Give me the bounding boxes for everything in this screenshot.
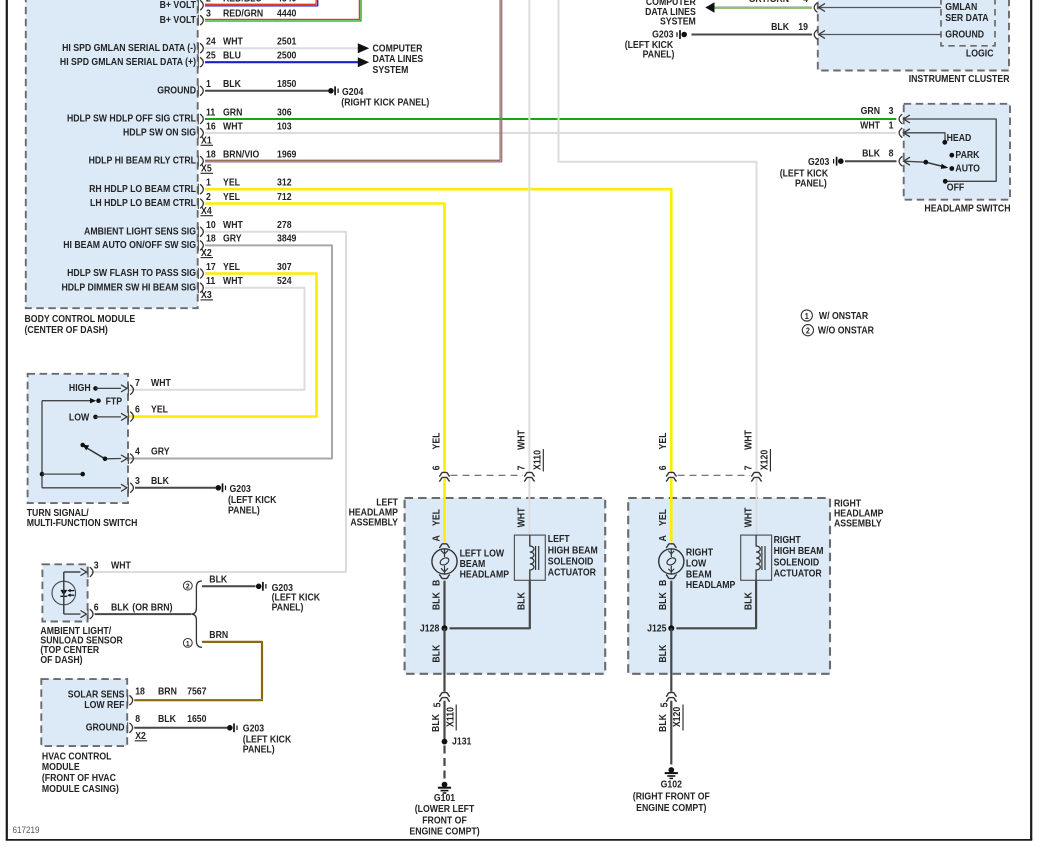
HVAC pin 18 SOLAR SENS LOW REF <box>68 686 207 710</box>
svg-text:2500: 2500 <box>277 50 296 61</box>
wire BRN 7567 <box>134 699 263 701</box>
wire BLU 2500 (HI SPD GMLAN +) <box>205 57 369 67</box>
wire BLK 1850 (ground) <box>205 90 328 92</box>
svg-text:3: 3 <box>206 8 211 19</box>
svg-text:B: B <box>658 579 669 586</box>
svg-text:LOW: LOW <box>686 558 707 569</box>
svg-text:RIGHT: RIGHT <box>686 547 713 558</box>
svg-text:LOW: LOW <box>69 412 90 423</box>
connector X120 pin 5 <box>657 693 683 732</box>
wire GRY/GRN (gmlan ser data to computer data lines) <box>705 0 812 13</box>
svg-text:WHT: WHT <box>516 507 527 527</box>
instrument cluster (box) <box>818 0 1009 71</box>
svg-text:X120: X120 <box>672 707 683 727</box>
BCM pin 17 YEL 307 (HDLP SW FLASH TO PASS SIG) <box>67 261 291 279</box>
svg-text:BLK: BLK <box>516 592 527 610</box>
ground splice G204 <box>328 86 429 107</box>
svg-text:X2: X2 <box>201 247 212 258</box>
wire WHT 524 (hdlp dimmer sw hi beam sig) <box>129 288 305 390</box>
left bulb B terminal wire <box>431 579 445 627</box>
svg-text:7: 7 <box>516 466 527 471</box>
BCM connector label X2 <box>201 247 214 258</box>
svg-text:PANEL): PANEL) <box>228 505 260 516</box>
svg-text:G203: G203 <box>243 723 264 734</box>
wire RED/GRN 4440 (B+ VOLT pin 3) <box>205 0 361 21</box>
BCM connector label X5 <box>201 163 214 174</box>
svg-text:712: 712 <box>277 191 292 202</box>
svg-text:5: 5 <box>659 703 670 708</box>
svg-text:(LEFT KICK: (LEFT KICK <box>243 734 292 745</box>
svg-text:WHT: WHT <box>223 276 243 287</box>
wire YEL 312 (RH hdlp lo beam) <box>205 189 671 471</box>
svg-text:(CENTER OF DASH): (CENTER OF DASH) <box>25 324 108 335</box>
wire YEL into right low beam <box>658 478 672 542</box>
svg-text:X4: X4 <box>201 205 212 216</box>
wire WHT 103 (hdlp sw on sig) <box>205 132 896 134</box>
svg-text:6: 6 <box>135 404 140 415</box>
svg-text:BRN/VIO: BRN/VIO <box>223 149 259 160</box>
turn signal switch pin 3 BLK <box>128 475 169 493</box>
svg-text:3: 3 <box>94 560 99 571</box>
instrument cluster LOGIC inner box <box>941 0 995 59</box>
svg-text:(RIGHT FRONT OF: (RIGHT FRONT OF <box>633 791 710 802</box>
svg-text:18: 18 <box>206 233 216 244</box>
headlamp switch caption <box>924 203 1010 214</box>
cluster internal line: GMLAN SER DATA <box>819 2 989 23</box>
svg-text:MULTI-FUNCTION SWITCH: MULTI-FUNCTION SWITCH <box>27 517 138 528</box>
diagram number 617219 <box>13 824 40 835</box>
svg-text:1: 1 <box>805 311 810 320</box>
svg-text:PANEL): PANEL) <box>272 602 304 613</box>
svg-text:307: 307 <box>277 261 292 272</box>
dashed BLK wire to G101 <box>443 746 445 780</box>
connector joint dashes <box>451 474 524 476</box>
svg-text:1969: 1969 <box>277 149 296 160</box>
ground G101 <box>409 782 479 837</box>
right solenoid ground wire <box>676 580 756 628</box>
BCM pin 3 RED/GRN 4440 (B+ VOLT) <box>160 8 297 26</box>
svg-text:17: 17 <box>206 261 216 272</box>
BCM pin 1 YEL 312 (RH HDLP LO BEAM CTRL) <box>89 177 291 195</box>
svg-text:11: 11 <box>206 107 215 118</box>
svg-text:G203: G203 <box>652 29 673 40</box>
svg-text:HEADLAMP: HEADLAMP <box>460 569 509 580</box>
BCM pin 1 BLK 1850 (GROUND) <box>157 79 296 97</box>
svg-text:3849: 3849 <box>277 233 296 244</box>
wire YEL 307 (hdlp sw flash to pass sig) <box>129 274 317 417</box>
wire WHT 2501 (HI SPD GMLAN -) <box>205 43 369 53</box>
HVAC control module (box) <box>41 679 127 746</box>
BCM connector label X1 <box>201 135 214 146</box>
svg-text:X5: X5 <box>201 163 212 174</box>
sensor pin 3 WHT <box>88 560 131 578</box>
svg-text:(OR BRN): (OR BRN) <box>132 602 172 613</box>
svg-text:BLK: BLK <box>658 644 669 662</box>
svg-text:HDLP DIMMER SW HI BEAM SIG: HDLP DIMMER SW HI BEAM SIG <box>61 282 196 293</box>
inline connector X110 pin 6 (YEL) <box>431 432 450 481</box>
wire WHT into left solenoid <box>516 478 530 535</box>
svg-text:4540: 4540 <box>277 0 296 4</box>
svg-text:306: 306 <box>277 107 292 118</box>
junction J125 <box>647 623 674 634</box>
svg-text:PANEL): PANEL) <box>643 49 675 60</box>
svg-text:ENGINE COMPT): ENGINE COMPT) <box>636 802 706 813</box>
svg-text:RH HDLP LO BEAM CTRL: RH HDLP LO BEAM CTRL <box>89 183 196 194</box>
svg-text:J131: J131 <box>452 736 471 747</box>
svg-text:WHT: WHT <box>743 507 754 527</box>
photodiode sensor symbol <box>52 572 76 614</box>
svg-text:BEAM: BEAM <box>686 569 712 580</box>
svg-text:278: 278 <box>277 220 292 231</box>
svg-text:DATA LINES: DATA LINES <box>373 54 424 65</box>
svg-text:HI BEAM AUTO ON/OFF SW SIG: HI BEAM AUTO ON/OFF SW SIG <box>63 240 196 251</box>
svg-text:FRONT OF: FRONT OF <box>422 815 467 826</box>
svg-text:1: 1 <box>186 639 190 647</box>
svg-text:AMBIENT LIGHT SENS SIG: AMBIENT LIGHT SENS SIG <box>84 226 196 237</box>
BCM connector label X3 <box>201 290 214 301</box>
switch pin 8 BLK <box>862 148 910 166</box>
BCM pin 24 WHT 2501 (HI SPD GMLAN SERIAL DATA (-)) <box>62 36 296 54</box>
switch pin 3 GRN <box>861 106 910 124</box>
svg-text:24: 24 <box>206 36 217 47</box>
computer data lines system label (left arrow) <box>645 0 696 26</box>
svg-text:HEAD: HEAD <box>947 132 972 143</box>
legend note 1: W/ ONSTAR <box>801 310 868 321</box>
inline connector X120 pin 7 (WHT) <box>743 430 770 482</box>
svg-text:PANEL): PANEL) <box>243 744 275 755</box>
body control module caption <box>25 314 136 335</box>
svg-text:WHT: WHT <box>223 121 243 132</box>
right headlamp assembly (box) <box>628 498 830 674</box>
svg-text:1: 1 <box>206 177 211 188</box>
svg-text:W/O ONSTAR: W/O ONSTAR <box>818 325 874 336</box>
HVAC connector label X2 <box>135 731 148 742</box>
svg-text:OFF: OFF <box>947 182 965 193</box>
svg-text:BEAM: BEAM <box>460 558 486 569</box>
svg-text:WHT: WHT <box>223 36 243 47</box>
svg-text:YEL: YEL <box>223 177 240 188</box>
svg-text:YEL: YEL <box>431 509 442 526</box>
svg-text:A: A <box>658 535 669 542</box>
wire BRN/VIO 1969 (hdlp hi beam rly ctrl) <box>205 0 502 162</box>
svg-text:GRY: GRY <box>223 233 242 244</box>
inline connector X120 pin 6 (YEL) <box>658 432 677 481</box>
svg-text:LOW REF: LOW REF <box>84 700 125 711</box>
wire BLK option 2 branch <box>202 574 256 586</box>
wire YEL 712 (LH hdlp lo beam) <box>205 204 445 472</box>
svg-text:8: 8 <box>889 148 894 159</box>
svg-text:25: 25 <box>206 50 216 61</box>
svg-text:BLK: BLK <box>658 592 669 610</box>
svg-text:TURN SIGNAL/: TURN SIGNAL/ <box>27 507 89 518</box>
svg-text:(LOWER LEFT: (LOWER LEFT <box>415 804 475 815</box>
svg-text:GRN: GRN <box>861 106 881 117</box>
option circle 1 <box>183 639 192 648</box>
svg-text:4440: 4440 <box>277 8 296 19</box>
BCM connector label X4 <box>201 205 214 216</box>
svg-text:G204: G204 <box>342 86 364 97</box>
connector X110 pin 5 <box>431 693 457 732</box>
svg-text:ASSEMBLY: ASSEMBLY <box>350 517 398 528</box>
svg-text:RED/GRN: RED/GRN <box>223 8 264 19</box>
switch internal circuit <box>904 119 997 184</box>
svg-text:7567: 7567 <box>187 686 206 697</box>
svg-text:BLK: BLK <box>431 714 442 732</box>
svg-text:BLK: BLK <box>151 475 169 486</box>
svg-text:SYSTEM: SYSTEM <box>373 64 409 75</box>
svg-text:2: 2 <box>206 0 211 4</box>
wire BLK (turn signal ground) <box>135 487 216 489</box>
svg-text:BRN: BRN <box>209 630 228 641</box>
left low beam headlamp bulb <box>432 544 457 579</box>
svg-text:YEL: YEL <box>223 261 240 272</box>
svg-text:BLK: BLK <box>209 574 227 585</box>
svg-text:16: 16 <box>206 121 216 132</box>
svg-text:BLK: BLK <box>223 79 241 90</box>
svg-text:BLK: BLK <box>657 714 668 732</box>
svg-text:3: 3 <box>889 106 894 117</box>
svg-text:SOLENOID: SOLENOID <box>548 556 594 567</box>
wire YEL into left low beam <box>431 478 445 542</box>
svg-text:B: B <box>431 579 442 586</box>
BCM pin 18 BRN/VIO 1969 (HDLP HI BEAM RLY CTRL) <box>89 149 297 167</box>
svg-text:X110: X110 <box>445 707 456 727</box>
right high beam solenoid actuator <box>741 535 772 580</box>
turn signal switch internal circuit <box>40 383 127 492</box>
svg-text:X1: X1 <box>201 135 212 146</box>
svg-text:6: 6 <box>431 466 442 471</box>
BCM pin 10 WHT 278 (AMBIENT LIGHT SENS SIG) <box>84 220 292 238</box>
svg-text:(RIGHT KICK PANEL): (RIGHT KICK PANEL) <box>341 97 429 108</box>
turn signal / multi-function switch (box) <box>28 374 128 503</box>
wire BLK below J128 <box>431 628 445 691</box>
svg-text:HIGH BEAM: HIGH BEAM <box>774 546 824 557</box>
svg-text:HIGH BEAM: HIGH BEAM <box>548 545 598 556</box>
svg-text:18: 18 <box>206 149 216 160</box>
inline connector X110 pin 7 (WHT) <box>516 430 543 482</box>
wire BLK to G102 <box>670 701 672 765</box>
svg-text:LH HDLP LO BEAM CTRL: LH HDLP LO BEAM CTRL <box>90 198 196 209</box>
ambient light / sunload sensor (box) <box>42 564 87 621</box>
svg-text:BLK: BLK <box>111 602 129 613</box>
left solenoid ground wire <box>450 580 530 628</box>
svg-text:A: A <box>431 535 442 542</box>
svg-text:X110: X110 <box>532 450 543 470</box>
svg-text:7: 7 <box>743 466 754 471</box>
ground splice G203 (left kick panel, cluster) <box>625 29 687 60</box>
svg-text:HDLP SW FLASH TO PASS SIG: HDLP SW FLASH TO PASS SIG <box>67 268 196 279</box>
svg-text:(FRONT OF HVAC: (FRONT OF HVAC <box>42 773 116 784</box>
BCM pin 11 GRN 306 (HDLP SW HDLP OFF SIG CTRL) <box>67 107 292 125</box>
svg-text:1: 1 <box>889 120 894 131</box>
wire BLK 8 (switch ground) <box>845 160 897 162</box>
svg-text:SER DATA: SER DATA <box>945 12 989 23</box>
ambient light sensor caption <box>40 625 123 665</box>
svg-text:HDLP HI BEAM RLY CTRL: HDLP HI BEAM RLY CTRL <box>89 155 197 166</box>
right solenoid caption <box>774 534 824 578</box>
svg-text:HI SPD GMLAN SERIAL DATA (+): HI SPD GMLAN SERIAL DATA (+) <box>60 56 196 67</box>
svg-text:GMLAN: GMLAN <box>945 2 977 13</box>
left solenoid caption <box>548 534 598 578</box>
svg-text:LOGIC: LOGIC <box>966 48 994 59</box>
svg-text:GRY/GRN: GRY/GRN <box>749 0 790 4</box>
svg-text:ENGINE COMPT): ENGINE COMPT) <box>409 826 479 837</box>
svg-text:5: 5 <box>432 703 443 708</box>
BCM pin 25 BLU 2500 (HI SPD GMLAN SERIAL DATA (+)) <box>60 50 296 68</box>
sensor internal wiring <box>64 568 87 617</box>
wire GRY 3849 (hi beam auto on/off sw sig) <box>129 245 332 458</box>
right low beam caption <box>686 547 735 590</box>
cluster pin 19 (ground) <box>814 30 825 40</box>
svg-text:BODY CONTROL MODULE: BODY CONTROL MODULE <box>25 314 136 325</box>
svg-text:MODULE CASING): MODULE CASING) <box>42 783 119 794</box>
wire WHT (right high beam feed from top) <box>559 0 757 472</box>
svg-text:BLK: BLK <box>862 148 880 159</box>
svg-text:HI SPD GMLAN SERIAL DATA (-): HI SPD GMLAN SERIAL DATA (-) <box>62 42 196 53</box>
BCM pin 16 WHT 103 (HDLP SW ON SIG) <box>123 121 292 139</box>
turn signal switch pin 4 GRY <box>128 446 169 464</box>
svg-text:YEL: YEL <box>658 509 669 526</box>
svg-text:HEADLAMP: HEADLAMP <box>686 580 735 591</box>
svg-text:HEADLAMP SWITCH: HEADLAMP SWITCH <box>924 203 1010 214</box>
svg-text:X2: X2 <box>135 731 146 742</box>
svg-text:COMPUTER: COMPUTER <box>373 43 423 54</box>
right headlamp assembly caption <box>834 498 883 528</box>
computer data lines system label (right arrow) <box>373 43 424 75</box>
headlamp switch S1 (box) <box>904 104 1010 200</box>
ground G102 <box>633 767 710 813</box>
wire BLK (OR BRN) from sensor <box>95 613 191 615</box>
junction J131 <box>442 736 472 747</box>
svg-text:1650: 1650 <box>187 714 206 725</box>
svg-text:G203: G203 <box>808 156 829 167</box>
wire WHT (left high beam feed from top) <box>528 0 530 472</box>
svg-text:GROUND: GROUND <box>86 722 125 733</box>
svg-text:YEL: YEL <box>658 432 669 449</box>
svg-text:19: 19 <box>798 21 808 32</box>
svg-text:HIGH: HIGH <box>69 383 91 394</box>
HVAC pin 8 GROUND <box>86 714 207 734</box>
svg-text:8: 8 <box>135 714 140 725</box>
svg-text:18: 18 <box>135 686 145 697</box>
svg-text:GRN: GRN <box>223 107 243 118</box>
switch pin 1 WHT <box>860 120 910 138</box>
svg-text:LEFT: LEFT <box>548 534 570 545</box>
svg-text:(LEFT KICK: (LEFT KICK <box>228 495 277 506</box>
svg-text:BLK: BLK <box>743 592 754 610</box>
svg-text:G102: G102 <box>661 779 682 790</box>
svg-text:B+ VOLT: B+ VOLT <box>160 0 197 10</box>
left headlamp assembly caption <box>349 497 399 527</box>
svg-text:YEL: YEL <box>151 404 168 415</box>
HVAC caption <box>42 751 119 794</box>
svg-text:WHT: WHT <box>151 377 171 388</box>
left headlamp assembly (box) <box>405 498 606 674</box>
svg-text:103: 103 <box>277 121 292 132</box>
svg-text:WHT: WHT <box>860 120 880 131</box>
cluster internal line: GROUND <box>819 29 985 40</box>
wire WHT 278 (ambient light sens sig) <box>91 232 346 572</box>
svg-text:10: 10 <box>206 220 216 231</box>
turn signal switch pin 7 WHT <box>128 377 171 395</box>
svg-text:SOLENOID: SOLENOID <box>774 557 820 568</box>
wire BLK below J125 <box>658 628 672 691</box>
svg-text:ACTUATOR: ACTUATOR <box>548 567 596 578</box>
svg-text:OF DASH): OF DASH) <box>40 654 82 665</box>
svg-text:WHT: WHT <box>743 430 754 450</box>
ground splice G203 (left kick panel, turn signal) <box>216 483 277 515</box>
svg-text:GROUND: GROUND <box>157 85 196 96</box>
wire BLK 19 (cluster ground) <box>692 21 813 34</box>
ground splice G203 (left kick panel, switch) <box>780 156 844 188</box>
right bulb B terminal wire <box>658 579 672 627</box>
svg-text:524: 524 <box>277 276 292 287</box>
svg-text:1: 1 <box>206 79 211 90</box>
body control module U1 (box) <box>26 0 198 308</box>
wire BLK 1650 <box>134 727 227 729</box>
svg-text:J125: J125 <box>647 623 666 634</box>
svg-text:4: 4 <box>803 0 809 4</box>
svg-text:PANEL): PANEL) <box>795 178 827 189</box>
turn signal switch pin 6 YEL <box>128 404 168 422</box>
svg-text:X3: X3 <box>201 290 212 301</box>
svg-text:BRN: BRN <box>158 686 177 697</box>
svg-text:RED/BLU: RED/BLU <box>223 0 262 4</box>
svg-text:MODULE: MODULE <box>42 762 80 773</box>
svg-text:GRY: GRY <box>151 446 170 457</box>
svg-text:2: 2 <box>206 191 211 202</box>
svg-text:WHT: WHT <box>516 430 527 450</box>
svg-text:1850: 1850 <box>277 79 296 90</box>
svg-text:2501: 2501 <box>277 36 296 47</box>
BCM pin 2 RED/BLU 4540 (B+ VOLT) <box>160 0 297 11</box>
svg-text:SOLAR SENS: SOLAR SENS <box>68 689 125 700</box>
svg-text:BLK: BLK <box>431 644 442 662</box>
svg-text:BLU: BLU <box>223 50 241 61</box>
svg-text:PARK: PARK <box>955 149 979 160</box>
svg-text:W/ ONSTAR: W/ ONSTAR <box>819 310 869 321</box>
svg-text:RIGHT: RIGHT <box>774 534 801 545</box>
svg-text:AUTO: AUTO <box>955 163 980 174</box>
option brace <box>191 581 202 647</box>
svg-text:ACTUATOR: ACTUATOR <box>774 568 822 579</box>
svg-text:6: 6 <box>658 466 669 471</box>
svg-text:312: 312 <box>277 177 292 188</box>
svg-text:7: 7 <box>135 377 140 388</box>
left high beam solenoid actuator <box>514 535 545 580</box>
BCM pin 11 WHT 524 (HDLP DIMMER SW HI BEAM SIG) <box>61 276 292 294</box>
svg-text:HDLP SW ON SIG: HDLP SW ON SIG <box>123 127 196 138</box>
svg-text:G101: G101 <box>434 792 455 803</box>
svg-text:B+ VOLT: B+ VOLT <box>160 14 197 25</box>
ground splice G203 (left kick panel, sensor) <box>256 582 320 613</box>
svg-text:617219: 617219 <box>13 824 40 835</box>
instrument cluster caption <box>909 73 1010 84</box>
ground splice G203 (left kick panel, HVAC) <box>227 723 292 754</box>
svg-text:HVAC CONTROL: HVAC CONTROL <box>42 751 112 762</box>
cluster pin (GMLAN) <box>814 3 825 13</box>
svg-text:INSTRUMENT CLUSTER: INSTRUMENT CLUSTER <box>909 73 1010 84</box>
wire GRN 306 (hdlp sw hdlp off sig) <box>205 118 896 120</box>
svg-text:YEL: YEL <box>431 432 442 449</box>
svg-text:LEFT LOW: LEFT LOW <box>460 548 505 559</box>
connector joint dashes (right) <box>678 474 751 476</box>
right low beam headlamp bulb <box>659 544 684 579</box>
svg-text:G203: G203 <box>230 483 251 494</box>
svg-text:2: 2 <box>186 582 190 590</box>
svg-text:ASSEMBLY: ASSEMBLY <box>834 518 882 529</box>
svg-text:BLK: BLK <box>431 592 442 610</box>
